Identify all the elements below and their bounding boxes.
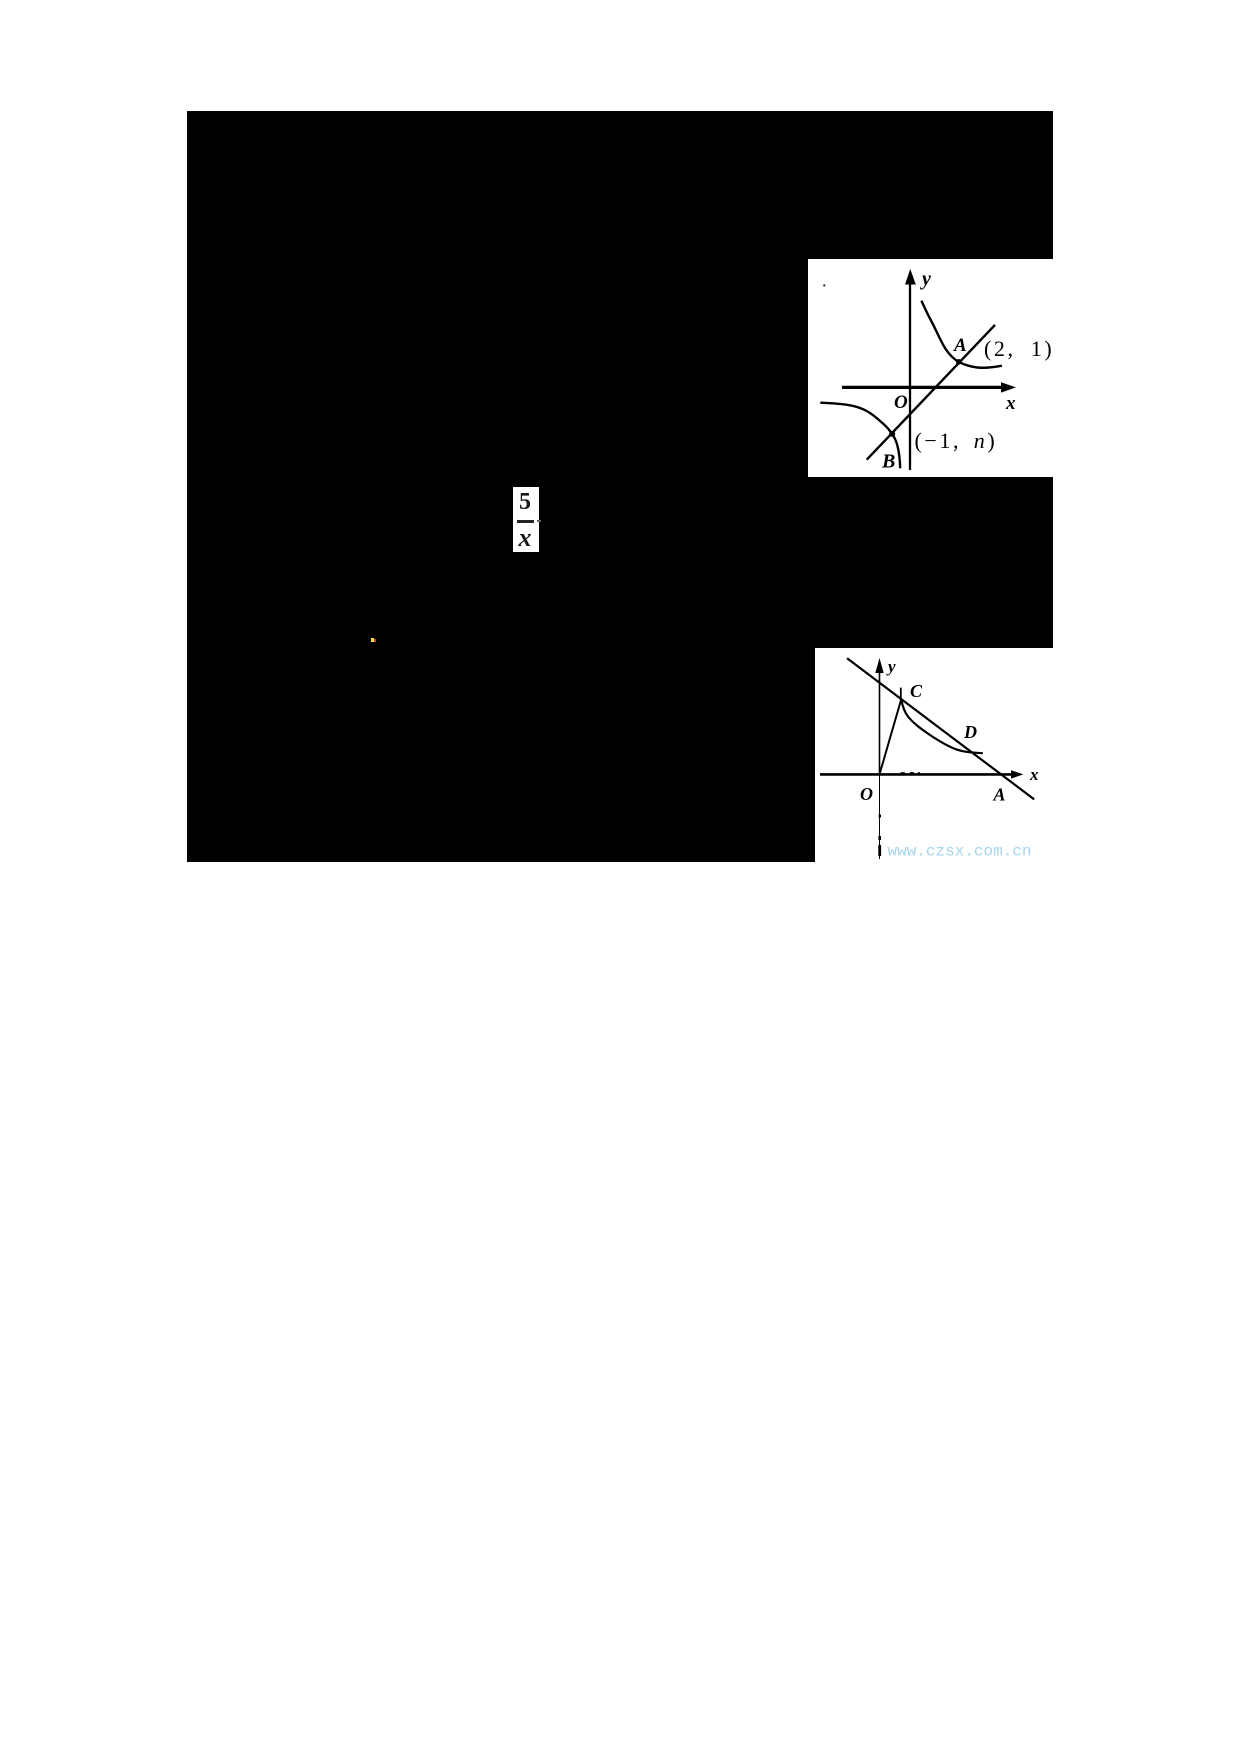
x axis speckle dashes bbox=[901, 772, 905, 774]
inset figure 2: line CD, curve, triangle OC bbox=[815, 648, 1053, 862]
point A dot bbox=[956, 359, 962, 365]
upper hyperbola branch bbox=[921, 301, 1002, 368]
speck dot bbox=[823, 284, 825, 286]
inset figure 1: hyperbola and line AB bbox=[808, 259, 1053, 477]
x axis bbox=[820, 773, 1013, 776]
tick at C bbox=[900, 688, 902, 701]
svg-text:D: D bbox=[963, 722, 977, 742]
svg-text:y: y bbox=[920, 268, 931, 290]
svg-text:A: A bbox=[953, 335, 967, 356]
small dash right of box bbox=[537, 520, 541, 522]
svg-text:www.czsx.com.cn: www.czsx.com.cn bbox=[888, 843, 1032, 861]
svg-text:(2, 1): (2, 1) bbox=[984, 336, 1053, 361]
line C D A bbox=[847, 658, 1034, 799]
line through A and B bbox=[867, 325, 995, 460]
fraction numerator 5 bbox=[512, 490, 538, 514]
svg-text:x: x bbox=[1005, 393, 1016, 414]
y axis below origin (thin) bbox=[879, 774, 881, 859]
point B dot bbox=[889, 431, 895, 437]
curve C to D bbox=[901, 699, 983, 754]
svg-text:x: x bbox=[1029, 765, 1039, 784]
segment O C bbox=[880, 699, 902, 774]
svg-text:C: C bbox=[910, 681, 923, 701]
svg-text:O: O bbox=[894, 392, 908, 413]
fraction denominator x bbox=[512, 525, 538, 551]
yellow/red speck bbox=[371, 638, 374, 642]
svg-text:(−1, n): (−1, n) bbox=[915, 428, 998, 453]
lower hyperbola branch bbox=[820, 403, 900, 469]
svg-text:y: y bbox=[886, 657, 896, 676]
fraction 5/x white box bbox=[513, 487, 539, 552]
y axis bbox=[909, 275, 911, 470]
y axis bbox=[879, 663, 881, 774]
y axis speckle marks bbox=[879, 815, 881, 818]
svg-text:O: O bbox=[860, 784, 873, 804]
black scanned block bbox=[187, 111, 1053, 862]
svg-text:A: A bbox=[993, 785, 1006, 805]
svg-text:B: B bbox=[881, 451, 895, 473]
x axis bbox=[842, 386, 1005, 389]
fraction bar bbox=[517, 520, 534, 523]
